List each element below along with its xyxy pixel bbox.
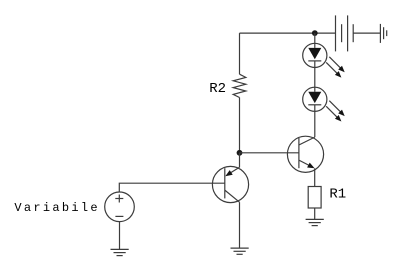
battery BT1 (336, 15, 354, 51)
transistor Q1 (212, 166, 248, 202)
node junction base (237, 150, 243, 156)
wire Q2 emitter to R1 (314, 168, 316, 186)
wire R1 to ground (314, 208, 316, 219)
svg-text:Variabile: Variabile (14, 201, 100, 215)
svg-text:R1: R1 (329, 186, 346, 202)
wire LED D2 to Q2 collector (314, 105, 316, 137)
resistor R1 (308, 187, 321, 209)
wire R2 to node (239, 98, 241, 153)
wire top rail (240, 32, 336, 34)
wire LED D1 to LED D2 (314, 61, 316, 92)
node junction top (312, 30, 318, 36)
svg-text:R2: R2 (209, 81, 226, 97)
LED D2 (303, 87, 345, 121)
ground (Q1) (231, 248, 249, 254)
wire node to Q1 emitter (239, 153, 241, 168)
wire source to ground (119, 222, 121, 250)
transistor Q2 (287, 136, 323, 172)
ground (right of battery) (380, 24, 386, 43)
ground (R1) (306, 219, 324, 225)
wire node to Q2 base (240, 152, 299, 154)
LED D1 (303, 43, 345, 77)
wire source to Q1 base (119, 183, 225, 192)
wire left rail down to R2 (239, 33, 241, 74)
wire rail to LED D1 (314, 33, 316, 48)
wire Q1 collector to ground (239, 202, 241, 248)
resistor R2 (233, 74, 246, 97)
ground (source) (111, 249, 129, 255)
wire battery to ground (353, 32, 380, 34)
source V1 (Variabile) (105, 192, 135, 222)
